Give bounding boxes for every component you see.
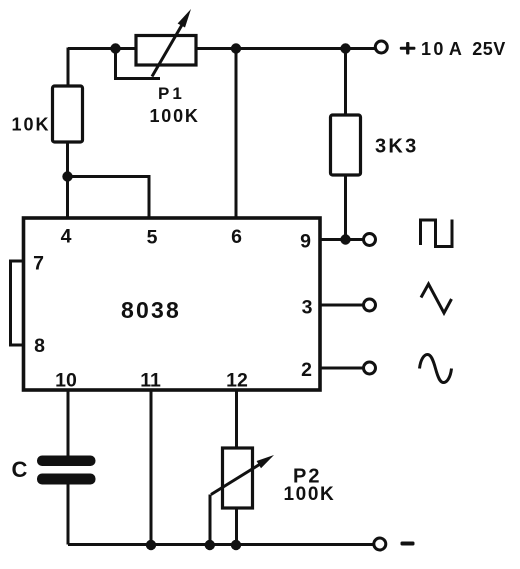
node junction at 3K3 branch	[340, 43, 350, 53]
terminal square-wave output	[364, 234, 376, 246]
svg-text:11: 11	[140, 370, 161, 392]
resistor 10K	[53, 86, 83, 142]
svg-text:10: 10	[55, 370, 77, 392]
svg-text:10A25V: 10A25V	[421, 39, 506, 59]
node junction at P1 left	[110, 43, 120, 53]
wire pin 10 to capacitor	[67, 390, 70, 456]
node junction at pin 6 branch	[231, 43, 241, 53]
svg-text:P1: P1	[158, 84, 185, 103]
svg-text:2: 2	[301, 359, 312, 381]
wire junction to pin 5	[68, 177, 150, 219]
svg-text:5: 5	[147, 227, 158, 249]
node junction pin 11 / rail	[146, 540, 156, 550]
wire P1 wiper return	[116, 49, 161, 79]
triangle wave symbol	[421, 284, 452, 313]
wire pin 6 branch	[235, 49, 238, 219]
wire jumper bracket pins 7-8	[11, 261, 24, 345]
svg-text:4: 4	[61, 226, 72, 248]
potentiometer P1 arrow	[152, 9, 191, 77]
svg-text:10K: 10K	[12, 115, 51, 135]
wire P2 wiper return	[209, 495, 212, 545]
svg-text:12: 12	[226, 370, 248, 392]
potentiometer P2 arrow	[211, 455, 274, 495]
sine wave symbol	[420, 355, 452, 383]
wire top supply rail	[68, 47, 376, 50]
capacitor C top plate	[37, 456, 96, 467]
svg-text:9: 9	[300, 231, 311, 253]
IC U1 8038 body	[24, 218, 321, 390]
wire 3K3 bottom to pin 9 node	[344, 175, 347, 240]
resistor 3K3	[331, 115, 361, 175]
terminal triangle-wave output	[364, 299, 376, 311]
terminal sine-wave output	[364, 362, 376, 374]
potentiometer P1 body	[136, 36, 196, 66]
wire pin 12 to P2	[235, 390, 238, 448]
svg-text:7: 7	[33, 253, 44, 275]
wire left branch down to 10K	[67, 48, 70, 88]
svg-text:3: 3	[302, 297, 313, 319]
svg-text:8: 8	[34, 335, 45, 357]
node junction P2 wiper / rail	[205, 540, 215, 550]
capacitor C bottom plate	[37, 474, 96, 485]
terminal minus	[374, 538, 386, 550]
svg-text:100K: 100K	[150, 106, 200, 126]
wire capacitor to bottom rail	[67, 484, 70, 545]
svg-text:8038: 8038	[121, 297, 181, 323]
wire pin 2 output	[320, 367, 364, 370]
svg-text:C: C	[12, 457, 28, 482]
svg-text:100K: 100K	[284, 484, 336, 505]
node junction below 10K	[62, 171, 72, 181]
svg-text:6: 6	[231, 226, 242, 248]
wire P2 bottom to rail	[235, 508, 238, 545]
wire pin 11 down	[150, 390, 153, 545]
wire 10K bottom to pin 4	[66, 142, 69, 218]
node junction pin 9 / 3K3	[340, 234, 350, 244]
potentiometer P2 body	[223, 448, 253, 508]
terminal +V	[375, 41, 387, 53]
label +10 A 25V	[400, 39, 506, 59]
wire pin 9 output	[320, 238, 364, 241]
svg-text:3K3: 3K3	[375, 136, 419, 158]
node junction P2 bottom / rail	[231, 540, 241, 550]
label minus sign	[401, 542, 415, 546]
wire 3K3 top	[344, 49, 347, 116]
square wave symbol	[421, 220, 453, 247]
wire pin 3 output	[320, 304, 364, 307]
wire bottom rail	[68, 543, 374, 546]
